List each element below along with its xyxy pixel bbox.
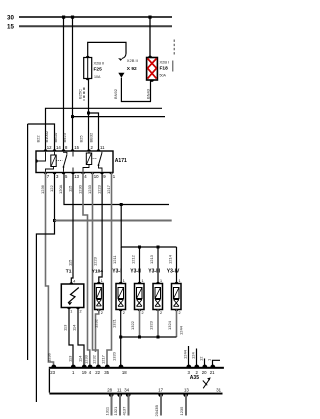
svg-text:1322: 1322 bbox=[130, 320, 135, 330]
wire label 1217 bbox=[106, 184, 111, 194]
wire 1233 (relay pin 10 to A35 pin 22, grey) bbox=[93, 173, 99, 367]
relay pin 12 number bbox=[47, 145, 52, 150]
wire label 1320 bbox=[112, 351, 117, 361]
svg-text:31: 31 bbox=[216, 387, 221, 392]
svg-text:T1: T1 bbox=[66, 269, 72, 275]
svg-text:1320: 1320 bbox=[112, 351, 117, 361]
svg-text:115: 115 bbox=[68, 185, 73, 192]
svg-text:35: 35 bbox=[104, 370, 109, 375]
svg-text:1232: 1232 bbox=[92, 354, 97, 364]
wire branch to relay pin 11 from B25C bbox=[87, 112, 99, 152]
svg-text:1321: 1321 bbox=[113, 406, 118, 416]
relay K2 internals (coil + contact) bbox=[83, 152, 102, 172]
svg-text:1230: 1230 bbox=[78, 184, 83, 194]
svg-text:120A: 120A bbox=[58, 184, 63, 194]
relay pin 10 number bbox=[94, 174, 99, 179]
boundary tick right of F18 labels bbox=[172, 61, 174, 72]
svg-text:2: 2 bbox=[101, 311, 103, 315]
svg-text:Y3-I: Y3-I bbox=[112, 269, 122, 275]
svg-text:15: 15 bbox=[74, 145, 79, 150]
svg-text:21: 21 bbox=[210, 370, 215, 375]
long left wire from H3 down bbox=[27, 124, 29, 360]
A35 pin 23 number bbox=[50, 370, 55, 375]
A35 pin 20 number bbox=[202, 370, 207, 375]
svg-text:4: 4 bbox=[73, 280, 75, 284]
A35 connector left link bbox=[48, 369, 50, 393]
svg-text:114: 114 bbox=[78, 355, 83, 362]
injector return bus bbox=[119, 336, 176, 339]
svg-text:1235: 1235 bbox=[179, 406, 184, 416]
wire label 120A bbox=[58, 184, 63, 194]
svg-text:Y3-III: Y3-III bbox=[148, 269, 161, 275]
relay pin 14 number bbox=[56, 145, 61, 150]
wire 120A (relay pin 5, branch right, cropped) bbox=[64, 173, 169, 205]
svg-text:2043B: 2043B bbox=[154, 405, 159, 417]
svg-text:1: 1 bbox=[70, 310, 72, 314]
svg-text:10A: 10A bbox=[94, 75, 101, 79]
svg-text:1311: 1311 bbox=[105, 406, 110, 415]
svg-text:12: 12 bbox=[199, 356, 204, 361]
svg-text:X 92: X 92 bbox=[127, 66, 137, 72]
wire 1321/1320 (Y3-I to A35 pin 18) bbox=[120, 310, 122, 367]
svg-text:A35: A35 bbox=[190, 375, 199, 381]
wire 122 (relay pin 3 down, jog left, cropped bottom) bbox=[36, 173, 54, 403]
junction on bus 30 for wire BB20 bbox=[71, 16, 74, 19]
svg-text:X2B II: X2B II bbox=[127, 58, 138, 63]
svg-text:BB10: BB10 bbox=[53, 132, 58, 143]
svg-text:BB32: BB32 bbox=[89, 132, 94, 143]
wire 1235 below A35 pin 13 (grey) bbox=[179, 395, 186, 416]
wire label 113 bbox=[68, 355, 73, 362]
wire label 122 bbox=[49, 185, 54, 192]
svg-text:B25: B25 bbox=[79, 135, 84, 143]
svg-text:1: 1 bbox=[101, 279, 103, 283]
bus 15 bbox=[19, 25, 172, 27]
wire label 1324 bbox=[167, 320, 172, 330]
svg-text:1223: 1223 bbox=[97, 184, 102, 194]
svg-text:122: 122 bbox=[49, 185, 54, 192]
wire 1230 (relay pin 4 to A35 pin 4, grey) bbox=[83, 173, 90, 367]
wire 1311 below A35 pin 28 (grey) bbox=[105, 395, 112, 416]
ignition coil T1 bbox=[61, 269, 84, 314]
relay pin 9 number bbox=[103, 174, 106, 179]
A35 pin 28 number bbox=[107, 387, 112, 392]
wire H3 to relay pin 14 bbox=[28, 124, 55, 151]
wire BN43 (F18 down, joins BN92) bbox=[145, 80, 150, 102]
wire label 115 bbox=[68, 185, 73, 192]
wire label 1321 bbox=[112, 318, 117, 328]
svg-text:X2B II: X2B II bbox=[94, 60, 105, 65]
svg-text:2: 2 bbox=[123, 311, 125, 315]
svg-text:1214: 1214 bbox=[168, 254, 173, 264]
wire label 1213 bbox=[149, 254, 154, 264]
wire from bus 30 down to fuse F18 bbox=[149, 17, 151, 58]
wire 2043B below A35 pin 17 (grey) bbox=[154, 395, 161, 417]
injector Y3-III bbox=[148, 269, 162, 315]
svg-text:BN92: BN92 bbox=[113, 88, 118, 99]
relay pin 15 number bbox=[74, 145, 79, 150]
relay pin 1 number bbox=[113, 174, 116, 179]
svg-text:12: 12 bbox=[47, 145, 52, 150]
wire loop top connecting F25 and X92 bbox=[88, 42, 126, 57]
relay pin 8 number bbox=[65, 145, 68, 150]
wire H1 to relay pin 12 (cropped right end) bbox=[46, 108, 163, 151]
wire 4137 below A35 pin 34 (grey) bbox=[122, 395, 129, 416]
wire H2 from BB20 (cropped right end) bbox=[71, 115, 165, 118]
svg-text:30: 30 bbox=[7, 15, 14, 22]
wire label B22 bbox=[36, 135, 41, 143]
svg-text:BN43: BN43 bbox=[145, 88, 150, 99]
wire label 1323 bbox=[149, 320, 154, 330]
svg-text:1233: 1233 bbox=[83, 354, 88, 364]
A35 pin 35 number bbox=[104, 370, 109, 375]
A35 pin 21 number bbox=[210, 370, 215, 375]
wire 115 (relay pin 13 to T1 pin 4) bbox=[71, 173, 73, 285]
svg-text:1217: 1217 bbox=[106, 184, 111, 194]
svg-text:18: 18 bbox=[122, 370, 127, 375]
svg-text:1323: 1323 bbox=[149, 320, 154, 330]
svg-text:4137: 4137 bbox=[122, 406, 127, 416]
wire label 114 bbox=[78, 355, 83, 362]
wire 113 (T1 pin 1 to A35 pin 1) bbox=[63, 308, 74, 367]
A35 pin 19 number bbox=[82, 370, 87, 375]
svg-text:2: 2 bbox=[179, 311, 181, 315]
wire BN92 (X92 down and right) bbox=[113, 78, 151, 102]
wire 1223 (relay pin 9 to Y104 pin 1) bbox=[99, 173, 102, 284]
wire label B923 bbox=[62, 132, 67, 142]
dashed boundary segment right of F18 bbox=[173, 40, 175, 55]
svg-text:1: 1 bbox=[123, 279, 125, 283]
A35 pin 3 number bbox=[188, 370, 191, 375]
svg-text:Y3-II: Y3-II bbox=[130, 269, 141, 275]
junction on wire 122 bbox=[53, 219, 56, 222]
svg-text:1321: 1321 bbox=[112, 318, 117, 328]
connector X92 bbox=[118, 54, 138, 78]
wire label B1002 bbox=[44, 130, 49, 142]
svg-text:1244: 1244 bbox=[183, 349, 188, 359]
relay pin 5 number bbox=[65, 174, 68, 179]
injector Y3-II bbox=[130, 269, 144, 315]
A35 pin 22 number bbox=[95, 370, 100, 375]
wire label 115 above T1 bbox=[68, 259, 73, 266]
svg-text:Y3-IV: Y3-IV bbox=[167, 269, 180, 275]
injector Y3-IV bbox=[167, 269, 181, 315]
fuse F25 10A bbox=[84, 56, 105, 81]
junction on bus 30 for fuse F18 feed bbox=[148, 16, 151, 19]
injector feed rail bbox=[121, 205, 176, 284]
wire label 1236 above A35 pin 23 bbox=[47, 352, 52, 362]
svg-text:1233: 1233 bbox=[87, 184, 92, 194]
svg-text:34: 34 bbox=[124, 387, 129, 392]
svg-text:22: 22 bbox=[95, 370, 100, 375]
svg-text:1: 1 bbox=[142, 279, 144, 283]
svg-text:50A: 50A bbox=[160, 74, 167, 78]
node 15 label bbox=[7, 24, 14, 31]
A35 pin 34 number bbox=[124, 387, 129, 392]
wire 1324 (Y3-IV return, grey) bbox=[176, 310, 178, 338]
svg-text:114: 114 bbox=[72, 324, 77, 331]
wire to A35 pin 20 bbox=[199, 356, 205, 367]
wire 1242 to A35 pin 2 bbox=[191, 349, 197, 367]
wire label 1233 bbox=[87, 184, 92, 194]
svg-text:115: 115 bbox=[68, 259, 73, 266]
wire label 1211 bbox=[112, 255, 117, 264]
svg-text:10: 10 bbox=[94, 174, 99, 179]
svg-text:113: 113 bbox=[68, 355, 73, 362]
wire label 1322 bbox=[130, 320, 135, 330]
svg-text:1: 1 bbox=[179, 279, 181, 283]
relay pin 2 number bbox=[91, 145, 94, 150]
svg-text:113: 113 bbox=[63, 324, 68, 331]
svg-text:15: 15 bbox=[7, 24, 14, 31]
A35 pin 17 number bbox=[158, 387, 163, 392]
wire 1236 (relay pin 7 to A35 pin 23, grey) bbox=[46, 173, 54, 367]
svg-text:1324: 1324 bbox=[167, 320, 172, 330]
wire label 1223 bbox=[97, 184, 102, 194]
svg-text:2: 2 bbox=[142, 311, 144, 315]
svg-text:B923: B923 bbox=[62, 132, 67, 142]
node 30 label bbox=[7, 15, 14, 22]
wire 1232 (Y104 pin 2 down, grey) bbox=[96, 310, 99, 353]
relay pin 3 number bbox=[56, 174, 59, 179]
svg-text:1244: 1244 bbox=[179, 325, 184, 335]
svg-text:1223: 1223 bbox=[93, 256, 98, 266]
svg-text:1232: 1232 bbox=[94, 318, 99, 328]
svg-text:2: 2 bbox=[80, 310, 82, 314]
svg-text:X2B I: X2B I bbox=[160, 60, 170, 65]
svg-text:B22: B22 bbox=[36, 135, 41, 143]
ECU connector A35 row 1 bbox=[49, 365, 224, 369]
bus 30 bbox=[19, 16, 172, 18]
wire label 1232 bbox=[94, 318, 99, 328]
wire label BB32 bbox=[89, 132, 94, 143]
A35 pin 2 number bbox=[196, 370, 199, 375]
wire 114 (T1 pin 2 to A35 pin 19) bbox=[72, 308, 85, 367]
junction feeding injector rail bbox=[120, 203, 123, 206]
floating wire label 1244 (cropped run) bbox=[179, 325, 184, 335]
wire label 1236 (below relay) bbox=[40, 184, 45, 194]
svg-text:1211: 1211 bbox=[112, 255, 117, 264]
A35 pin 4 number bbox=[89, 370, 92, 375]
svg-text:1: 1 bbox=[160, 279, 162, 283]
wire label 1214 bbox=[168, 254, 173, 264]
svg-text:20: 20 bbox=[202, 370, 207, 375]
svg-text:28: 28 bbox=[107, 387, 112, 392]
wire BB20 (bus 30 to relay pin 15) bbox=[72, 17, 74, 151]
A35 pin 1 number bbox=[72, 370, 75, 375]
svg-text:11: 11 bbox=[100, 145, 105, 150]
A35 pin 31 number bbox=[216, 387, 221, 392]
junction on bus 30 for wire BB10 bbox=[62, 16, 65, 19]
injector Y3-I bbox=[112, 269, 125, 315]
svg-text:Y104: Y104 bbox=[92, 269, 104, 275]
relay pin 7 number bbox=[47, 174, 50, 179]
svg-text:1212: 1212 bbox=[131, 254, 136, 264]
wire label 1232 above A35 pin 22 bbox=[92, 354, 97, 364]
A35 label bbox=[190, 375, 199, 381]
svg-text:23: 23 bbox=[50, 370, 55, 375]
A35 pin 13 number bbox=[184, 387, 189, 392]
relay box A171 bbox=[36, 149, 113, 174]
grey branch from wire 122 to the right (cropped) bbox=[55, 220, 172, 222]
wire 1323 (Y3-III return, grey) bbox=[157, 310, 159, 338]
A35 pointer arrow bbox=[203, 377, 211, 388]
solenoid valve Y104 bbox=[92, 269, 104, 315]
svg-text:17: 17 bbox=[158, 387, 163, 392]
relay pin 4 number bbox=[84, 174, 87, 179]
wire 1321 below A35 pin 11 (grey) bbox=[113, 395, 120, 416]
svg-text:F25: F25 bbox=[94, 66, 103, 72]
A35 pin 18 number bbox=[122, 370, 127, 375]
dashed boundary segment left of F25 bottom wire bbox=[83, 88, 85, 101]
ECU connector A35 row 2 bbox=[49, 393, 222, 397]
wire label 1223 above Y104 bbox=[93, 256, 98, 266]
svg-text:1217: 1217 bbox=[101, 354, 106, 364]
svg-text:A171: A171 bbox=[115, 158, 127, 164]
wire label BB10 bbox=[53, 132, 58, 143]
svg-text:14: 14 bbox=[56, 145, 61, 150]
wire label 1217 above A35 pin 35 bbox=[101, 354, 106, 364]
svg-text:B25C: B25C bbox=[78, 89, 83, 99]
wire label B25 bbox=[79, 135, 84, 143]
wire hook at A35 pin 21 (cropped) bbox=[207, 358, 221, 367]
svg-text:19: 19 bbox=[82, 370, 87, 375]
svg-text:13: 13 bbox=[184, 387, 189, 392]
svg-text:2: 2 bbox=[160, 311, 162, 315]
A35 pin 11 number bbox=[117, 387, 122, 392]
wire label 1233 above A35 pin 4 bbox=[83, 354, 88, 364]
svg-text:F18: F18 bbox=[160, 66, 169, 72]
wire BB10 (bus 30 to relay pin 8) bbox=[63, 17, 65, 151]
svg-text:11: 11 bbox=[117, 387, 122, 392]
wire B25C (F25 to relay pin 2) bbox=[78, 79, 89, 152]
wire label 1212 bbox=[131, 254, 136, 264]
wire 1322 (Y3-II return, grey) bbox=[139, 310, 141, 338]
wire 1217 (relay pin 1 to A35 pin 35, grey) bbox=[107, 173, 112, 367]
fuse F18 50A (red) bbox=[147, 56, 170, 82]
svg-text:124: 124 bbox=[191, 352, 196, 359]
svg-text:1236: 1236 bbox=[47, 352, 52, 362]
relay pin 13 number bbox=[74, 174, 79, 179]
svg-text:1236: 1236 bbox=[40, 184, 45, 194]
svg-text:13: 13 bbox=[74, 174, 79, 179]
relay pin 11 number bbox=[100, 145, 105, 150]
relay label A171 bbox=[115, 158, 127, 164]
svg-text:1213: 1213 bbox=[149, 254, 154, 264]
wire label 1230 bbox=[78, 184, 83, 194]
relay K1 internals (coil + contact) bbox=[37, 152, 73, 172]
svg-text:B1002: B1002 bbox=[44, 130, 49, 142]
wire 1244 to A35 pin 3 bbox=[183, 346, 189, 367]
